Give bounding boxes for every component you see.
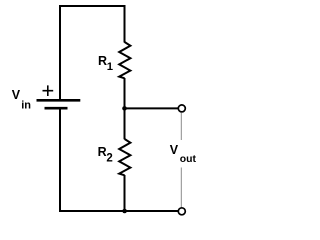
svg-text:R: R [98,54,107,68]
svg-text:1: 1 [107,61,113,73]
wire left vertical (battery - to bottom) [59,109,61,211]
svg-text:V: V [170,143,179,157]
resistor R2 [119,139,130,175]
battery Vin negative plate [45,107,68,110]
node junction lower [122,209,127,214]
svg-text:R: R [98,145,107,159]
polarity plus sign [43,85,54,96]
wire bottom horizontal [59,210,178,212]
terminal lower (open circle) [178,208,185,215]
wire middle horizontal (node to upper terminal) [125,107,178,109]
svg-text:out: out [180,154,197,165]
svg-text:V: V [12,88,21,102]
label R1 [98,54,113,73]
svg-text:2: 2 [106,153,112,165]
label Vout [170,143,197,165]
wire top horizontal [59,5,126,7]
node junction upper [122,106,127,111]
wire right vertical (R2 to bottom) [124,175,126,212]
wire right vertical (top to R1) [124,5,126,43]
measurement lead upper [180,113,182,140]
svg-text:in: in [21,99,31,111]
label R2 [98,145,113,165]
terminal upper (open circle) [178,105,185,112]
wire left vertical (top to battery +) [59,5,61,99]
label Vin [12,88,31,111]
measurement lead lower [180,168,182,208]
battery Vin positive plate [37,99,81,102]
wire right vertical (R1 to R2) [124,78,126,139]
resistor R1 [119,42,130,78]
